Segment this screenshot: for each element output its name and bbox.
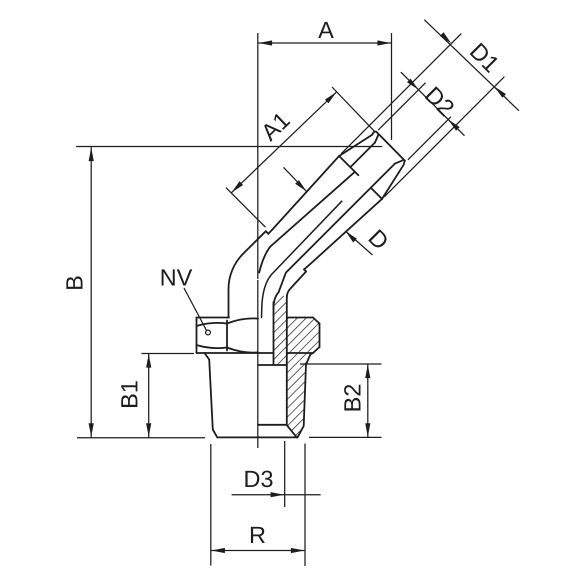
dim D2 label [425,86,456,117]
body bore / tube joint line [286,298,288,425]
thread outer edge left (tapered) [209,360,213,430]
dim D: arrows across tuelle neck [284,167,307,191]
NV leader dot [206,330,211,335]
thread end chamfer left [213,430,218,438]
hex corner chamfer top right [313,318,320,324]
dim B1: vertical dimension line [148,354,150,438]
hex bottom edge right (section) [287,352,313,354]
dim R: horizontal dimension at bottom [211,550,305,552]
cone step below hex, left [205,353,210,360]
barb back face lower [371,188,382,199]
dim D1 label [470,43,500,73]
hex chamfer arc left flat bottom [197,345,228,348]
dim B bottom extension line [77,437,205,439]
dim B2 bottom extension line [309,436,382,438]
bore wall upper: curve + slanted line to barb face [259,172,355,273]
hex top edge right (section) [287,317,313,319]
dim A1 lower extension line (at tuelle groove) [226,188,266,228]
hex chamfer arc left flat top [197,323,228,326]
dim D1 extension line upper (from barb edge) [341,34,461,154]
hex nut left edge [196,318,198,354]
upper groove step at tuelle start [266,231,269,234]
tip end face [377,132,405,161]
bore wall upper beyond barb face [351,143,375,167]
dim D3: dimension line with single arrow [232,494,321,496]
bottom face [217,436,297,438]
dim D2 extension line lower [408,117,451,160]
hex right edge (section) [319,324,321,348]
tip bore chamfer upper [375,135,378,143]
thread outer edge right (tapered, section) [304,365,306,427]
dim A right extension line [391,33,393,140]
hex chamfer arc front flat bottom [227,348,258,353]
dim R label [251,527,265,543]
hex chamfer arc front flat top [227,318,258,323]
dim B top extension line [76,146,382,148]
bend inner silhouette curve [262,201,342,317]
cone step below hex, right [306,354,311,364]
bore chamfer at bottom (section) [287,425,297,438]
dim D1 dimension line [424,20,519,111]
dim B: vertical dimension line at left [90,147,92,437]
barb back face upper [339,156,358,175]
dim A1 label [259,111,290,142]
tube outer edge lower: vertical + kink arc + 45deg socket edge [287,272,306,298]
hex corner chamfer bottom right [313,347,320,353]
dim D1 extension line lower [384,77,504,197]
thread end chamfer right [298,426,304,437]
dim B2 top extension line [300,363,382,365]
dim D label [368,229,389,250]
dim B1 top extension line [142,353,195,355]
tube inner wall left (joint band) [273,302,275,365]
dim D3 right extension line [284,441,286,507]
tube outer silhouette left: vertical + bend arc + 45deg socket edge [228,231,265,317]
dim D3 label [245,471,272,488]
section hatch: fitting body right half [287,318,320,438]
dim A label [318,22,334,38]
dim B label [66,276,82,289]
NV label [162,269,193,285]
dim R left extension line [210,444,212,566]
dim A1: 45deg dimension line [231,92,337,193]
tip cone upper edge + rounded corner [339,131,377,156]
bore wall lower: curve from joint band into 45deg bore line [274,164,395,309]
dim A: horizontal dimension line at top [258,42,392,44]
hex nut bottom edge / washer face [197,352,274,354]
centerline of vertical body [257,33,259,279]
lower groove step at tuelle start [304,269,306,271]
tip cone lower edge + rounded corner [382,161,405,199]
section hatch: tube wall band at joint [274,295,287,365]
NV leader line [184,288,207,331]
dim R right extension line [304,444,306,567]
dim B2 label [344,385,360,411]
lower barb cone edge [309,199,382,266]
hex flat corner edge [226,321,228,351]
dim D2 dimension line [401,72,465,136]
dim D2 extension line upper (from tip corner) [378,83,425,130]
dim A1 / tip face extension line [332,87,374,131]
tube end face inside body [258,364,287,366]
dim B1 label [121,381,137,407]
dim B2: vertical dimension line at right [367,364,369,437]
tip bore chamfer lower [395,160,404,164]
hex nut top edge (outside view) [197,317,230,319]
upper barb cone edge [273,156,340,229]
bore chamfer top edge [258,424,287,426]
